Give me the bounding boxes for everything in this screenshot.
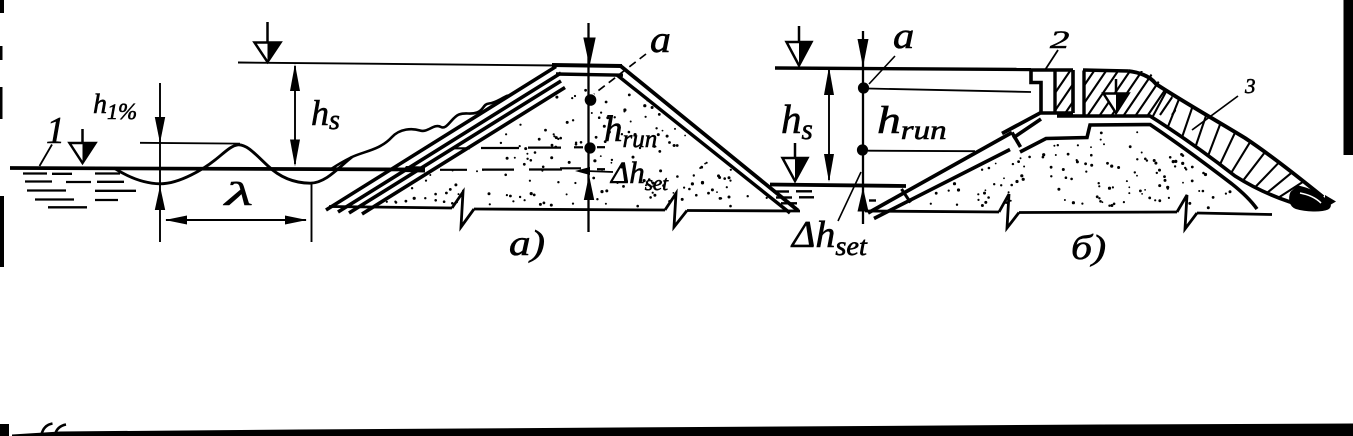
- sand texture dots dam (b): [1126, 180, 1128, 182]
- water level marker 1 (nabla): [81, 129, 84, 145]
- dimension line h1% vertical: [159, 83, 161, 242]
- parapet inner face line: [1053, 70, 1056, 113]
- leader for label 1: [40, 145, 53, 167]
- slope slab top edge (3): [1128, 71, 1323, 197]
- dashed level line at crest settlement (a): [453, 147, 470, 149]
- svg-text:λ: λ: [223, 177, 253, 213]
- upstream slope revetment lines (a): [326, 67, 556, 211]
- wavelength tick right: [311, 184, 313, 242]
- crest slab top line (b): [1083, 70, 1128, 71]
- upper slope slab inner line (b): [1013, 119, 1041, 138]
- concrete hatching crest slab: [1040, 71, 1226, 115]
- wave crest level line: [140, 142, 240, 145]
- scan artifact: left edge mark 4: [0, 196, 4, 267]
- level dot a2: [584, 142, 595, 153]
- svg-text:б): б): [1071, 228, 1106, 267]
- dimension line lambda: [166, 219, 306, 221]
- level line from dot b1: [868, 89, 1031, 93]
- upper slope slab outer line (b): [1002, 112, 1042, 134]
- dam crest inner line (a): [556, 74, 623, 75]
- still water level line (a): [10, 168, 425, 170]
- concrete hatching slope slab: [1152, 91, 1166, 118]
- arrowhead lambda right: [285, 216, 307, 225]
- lower slope slab joint cap (b): [1012, 133, 1021, 148]
- svg-text:2: 2: [1050, 27, 1069, 54]
- arrowhead h_s bottom (b): [824, 154, 834, 182]
- leader for label 3: [1192, 96, 1238, 130]
- svg-text:a: a: [650, 19, 671, 61]
- scan artifact: left edge mark 3: [0, 87, 3, 119]
- crest elevation line (a): [238, 63, 556, 66]
- wave profile: [114, 145, 352, 184]
- slab joint tick near toe (b): [902, 189, 911, 203]
- downstream slope inner line (a): [617, 75, 790, 213]
- water hatching dashes (a): [23, 172, 47, 174]
- lower slope slab outer line (b): [868, 133, 1012, 214]
- upper pool level line (b): [775, 68, 1031, 70]
- scan artifact: top-left edge mark: [0, 0, 4, 13]
- base line (b): [865, 211, 999, 212]
- level dot a1: [585, 94, 597, 106]
- leader delta-h-set (b): [838, 172, 861, 221]
- svg-text:a): a): [509, 223, 545, 263]
- lower slope slab inner line (b): [874, 150, 1010, 219]
- leader for label 2: [1045, 50, 1058, 70]
- svg-text:3: 3: [1244, 74, 1256, 98]
- dashed still water level inside dam (a): [440, 169, 467, 171]
- scan artifact: handwriting marks bottom-left: [42, 424, 67, 435]
- scan artifact: bottom black band: [12, 424, 1353, 436]
- dimension h_s (b) vertical: [828, 69, 830, 180]
- dam crest outer line (a): [552, 65, 622, 66]
- lower level marker (nabla) (b): [794, 143, 797, 160]
- base line (a): [329, 207, 452, 209]
- arrowhead down to crest level (b): [858, 39, 869, 67]
- dimension h_s (a) vertical: [294, 66, 296, 164]
- arrowhead h_s bottom: [290, 140, 300, 167]
- crest slab left edge (b): [1082, 71, 1085, 116]
- scan artifact: left edge mark 2: [0, 46, 3, 60]
- svg-text:a: a: [893, 16, 914, 57]
- leader for label a (a): [594, 54, 646, 94]
- arrowhead h_s top: [290, 64, 300, 91]
- natural ground wavy line: [332, 96, 508, 169]
- arrowhead h_s top (b): [824, 67, 834, 95]
- downstream slope outer line (a): [620, 66, 798, 211]
- arrowhead up to setup level (a): [584, 175, 594, 200]
- leader arrow delta-h-set (a): [586, 171, 613, 172]
- arrowhead down to crest level: [155, 117, 165, 143]
- run-up level marker on slab (nabla): [1115, 79, 1118, 96]
- arrowhead lambda left: [165, 216, 187, 225]
- parapet wall outline (2): [1031, 70, 1041, 113]
- scan artifact: bottom-left corner block: [0, 424, 9, 436]
- crest elevation marker (nabla): [266, 22, 269, 45]
- crest slab bottom line and slope slab bottom (b): [1057, 116, 1309, 208]
- upper level marker (nabla) (b): [798, 26, 801, 44]
- level dot b2: [857, 144, 868, 155]
- scan artifact: right edge black bar: [1344, 0, 1353, 155]
- arrowhead up to lower water level (b): [858, 188, 869, 212]
- svg-text:1: 1: [46, 110, 65, 152]
- level line from dot b2: [868, 150, 975, 153]
- level dot b1: [858, 82, 869, 93]
- sand texture dots dam (a): [614, 116, 616, 118]
- lower water level line (b): [770, 185, 906, 187]
- water hatching dashes (b): [773, 190, 789, 192]
- dam axis line (a): [587, 23, 589, 232]
- embankment surface under slabs (b): [1020, 125, 1257, 210]
- arrowhead up to wave trough: [155, 186, 165, 210]
- leader for label a (b): [869, 56, 895, 84]
- arrowhead down to crest (a): [583, 38, 595, 67]
- run-up axis line (b): [862, 31, 864, 224]
- slab toe cap (dark tip): [1290, 186, 1331, 211]
